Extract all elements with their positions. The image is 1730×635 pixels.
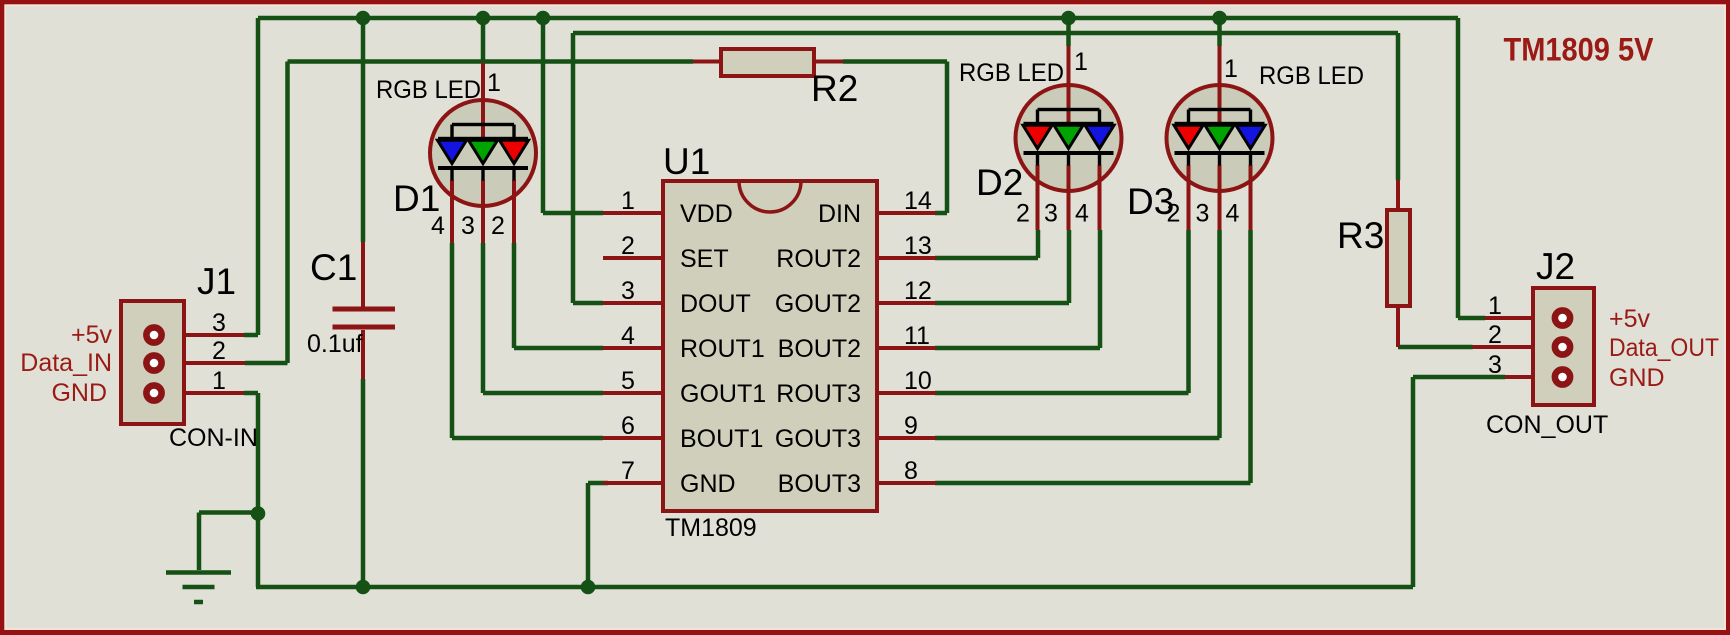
svg-text:0.1uf: 0.1uf: [307, 330, 363, 358]
svg-text:DIN: DIN: [818, 200, 861, 228]
svg-text:Data_IN: Data_IN: [20, 349, 112, 377]
svg-text:J2: J2: [1536, 246, 1575, 287]
svg-text:2: 2: [491, 212, 505, 240]
svg-text:VDD: VDD: [680, 200, 733, 228]
svg-text:GOUT3: GOUT3: [775, 425, 861, 453]
svg-text:+5v: +5v: [71, 321, 113, 349]
svg-text:TM1809: TM1809: [665, 514, 757, 542]
svg-text:3: 3: [1044, 200, 1058, 228]
svg-text:3: 3: [1488, 351, 1502, 379]
svg-text:R2: R2: [811, 68, 858, 109]
svg-text:2: 2: [1488, 321, 1502, 349]
svg-text:3: 3: [621, 277, 635, 305]
svg-text:+5v: +5v: [1609, 305, 1651, 333]
svg-text:3: 3: [1196, 200, 1210, 228]
svg-text:4: 4: [621, 322, 635, 350]
svg-text:4: 4: [431, 212, 445, 240]
svg-text:3: 3: [212, 309, 226, 337]
svg-text:5: 5: [621, 367, 635, 395]
svg-text:J1: J1: [197, 261, 236, 302]
svg-text:C1: C1: [310, 247, 357, 288]
svg-text:11: 11: [904, 322, 930, 350]
svg-text:DOUT: DOUT: [680, 290, 751, 318]
svg-text:GND: GND: [51, 379, 107, 407]
svg-text:CON-IN: CON-IN: [169, 424, 258, 452]
svg-text:RGB LED: RGB LED: [376, 76, 481, 104]
svg-text:1: 1: [487, 69, 501, 97]
svg-text:ROUT2: ROUT2: [776, 245, 861, 273]
svg-text:8: 8: [904, 457, 918, 485]
svg-text:4: 4: [1226, 200, 1240, 228]
svg-text:2: 2: [1016, 200, 1030, 228]
svg-text:RGB LED: RGB LED: [1259, 62, 1364, 90]
svg-text:ROUT1: ROUT1: [680, 335, 765, 363]
svg-text:7: 7: [621, 457, 635, 485]
svg-text:D2: D2: [976, 162, 1023, 203]
svg-text:SET: SET: [680, 245, 729, 273]
svg-text:TM1809 5V: TM1809 5V: [1504, 32, 1655, 68]
svg-text:1: 1: [212, 367, 226, 395]
svg-text:14: 14: [904, 187, 932, 215]
svg-text:3: 3: [461, 212, 475, 240]
svg-text:2: 2: [621, 232, 635, 260]
svg-text:U1: U1: [663, 141, 710, 182]
svg-text:GOUT1: GOUT1: [680, 380, 766, 408]
svg-text:2: 2: [1167, 200, 1181, 228]
svg-text:1: 1: [621, 187, 635, 215]
svg-text:GND: GND: [680, 470, 736, 498]
svg-text:6: 6: [621, 412, 635, 440]
svg-text:Data_OUT: Data_OUT: [1609, 334, 1719, 362]
svg-text:1: 1: [1488, 292, 1502, 320]
svg-text:BOUT3: BOUT3: [778, 470, 861, 498]
svg-text:1: 1: [1074, 48, 1088, 76]
svg-text:ROUT3: ROUT3: [776, 380, 861, 408]
svg-text:R3: R3: [1337, 215, 1384, 256]
svg-text:9: 9: [904, 412, 918, 440]
svg-text:RGB LED: RGB LED: [959, 59, 1064, 87]
svg-text:1: 1: [1224, 55, 1238, 83]
svg-text:BOUT1: BOUT1: [680, 425, 763, 453]
svg-text:4: 4: [1075, 200, 1089, 228]
svg-text:GND: GND: [1609, 364, 1665, 392]
svg-text:13: 13: [904, 232, 932, 260]
svg-text:2: 2: [212, 337, 226, 365]
svg-text:GOUT2: GOUT2: [775, 290, 861, 318]
svg-text:CON_OUT: CON_OUT: [1486, 411, 1608, 439]
svg-text:10: 10: [904, 367, 932, 395]
svg-text:BOUT2: BOUT2: [778, 335, 861, 363]
svg-text:12: 12: [904, 277, 932, 305]
